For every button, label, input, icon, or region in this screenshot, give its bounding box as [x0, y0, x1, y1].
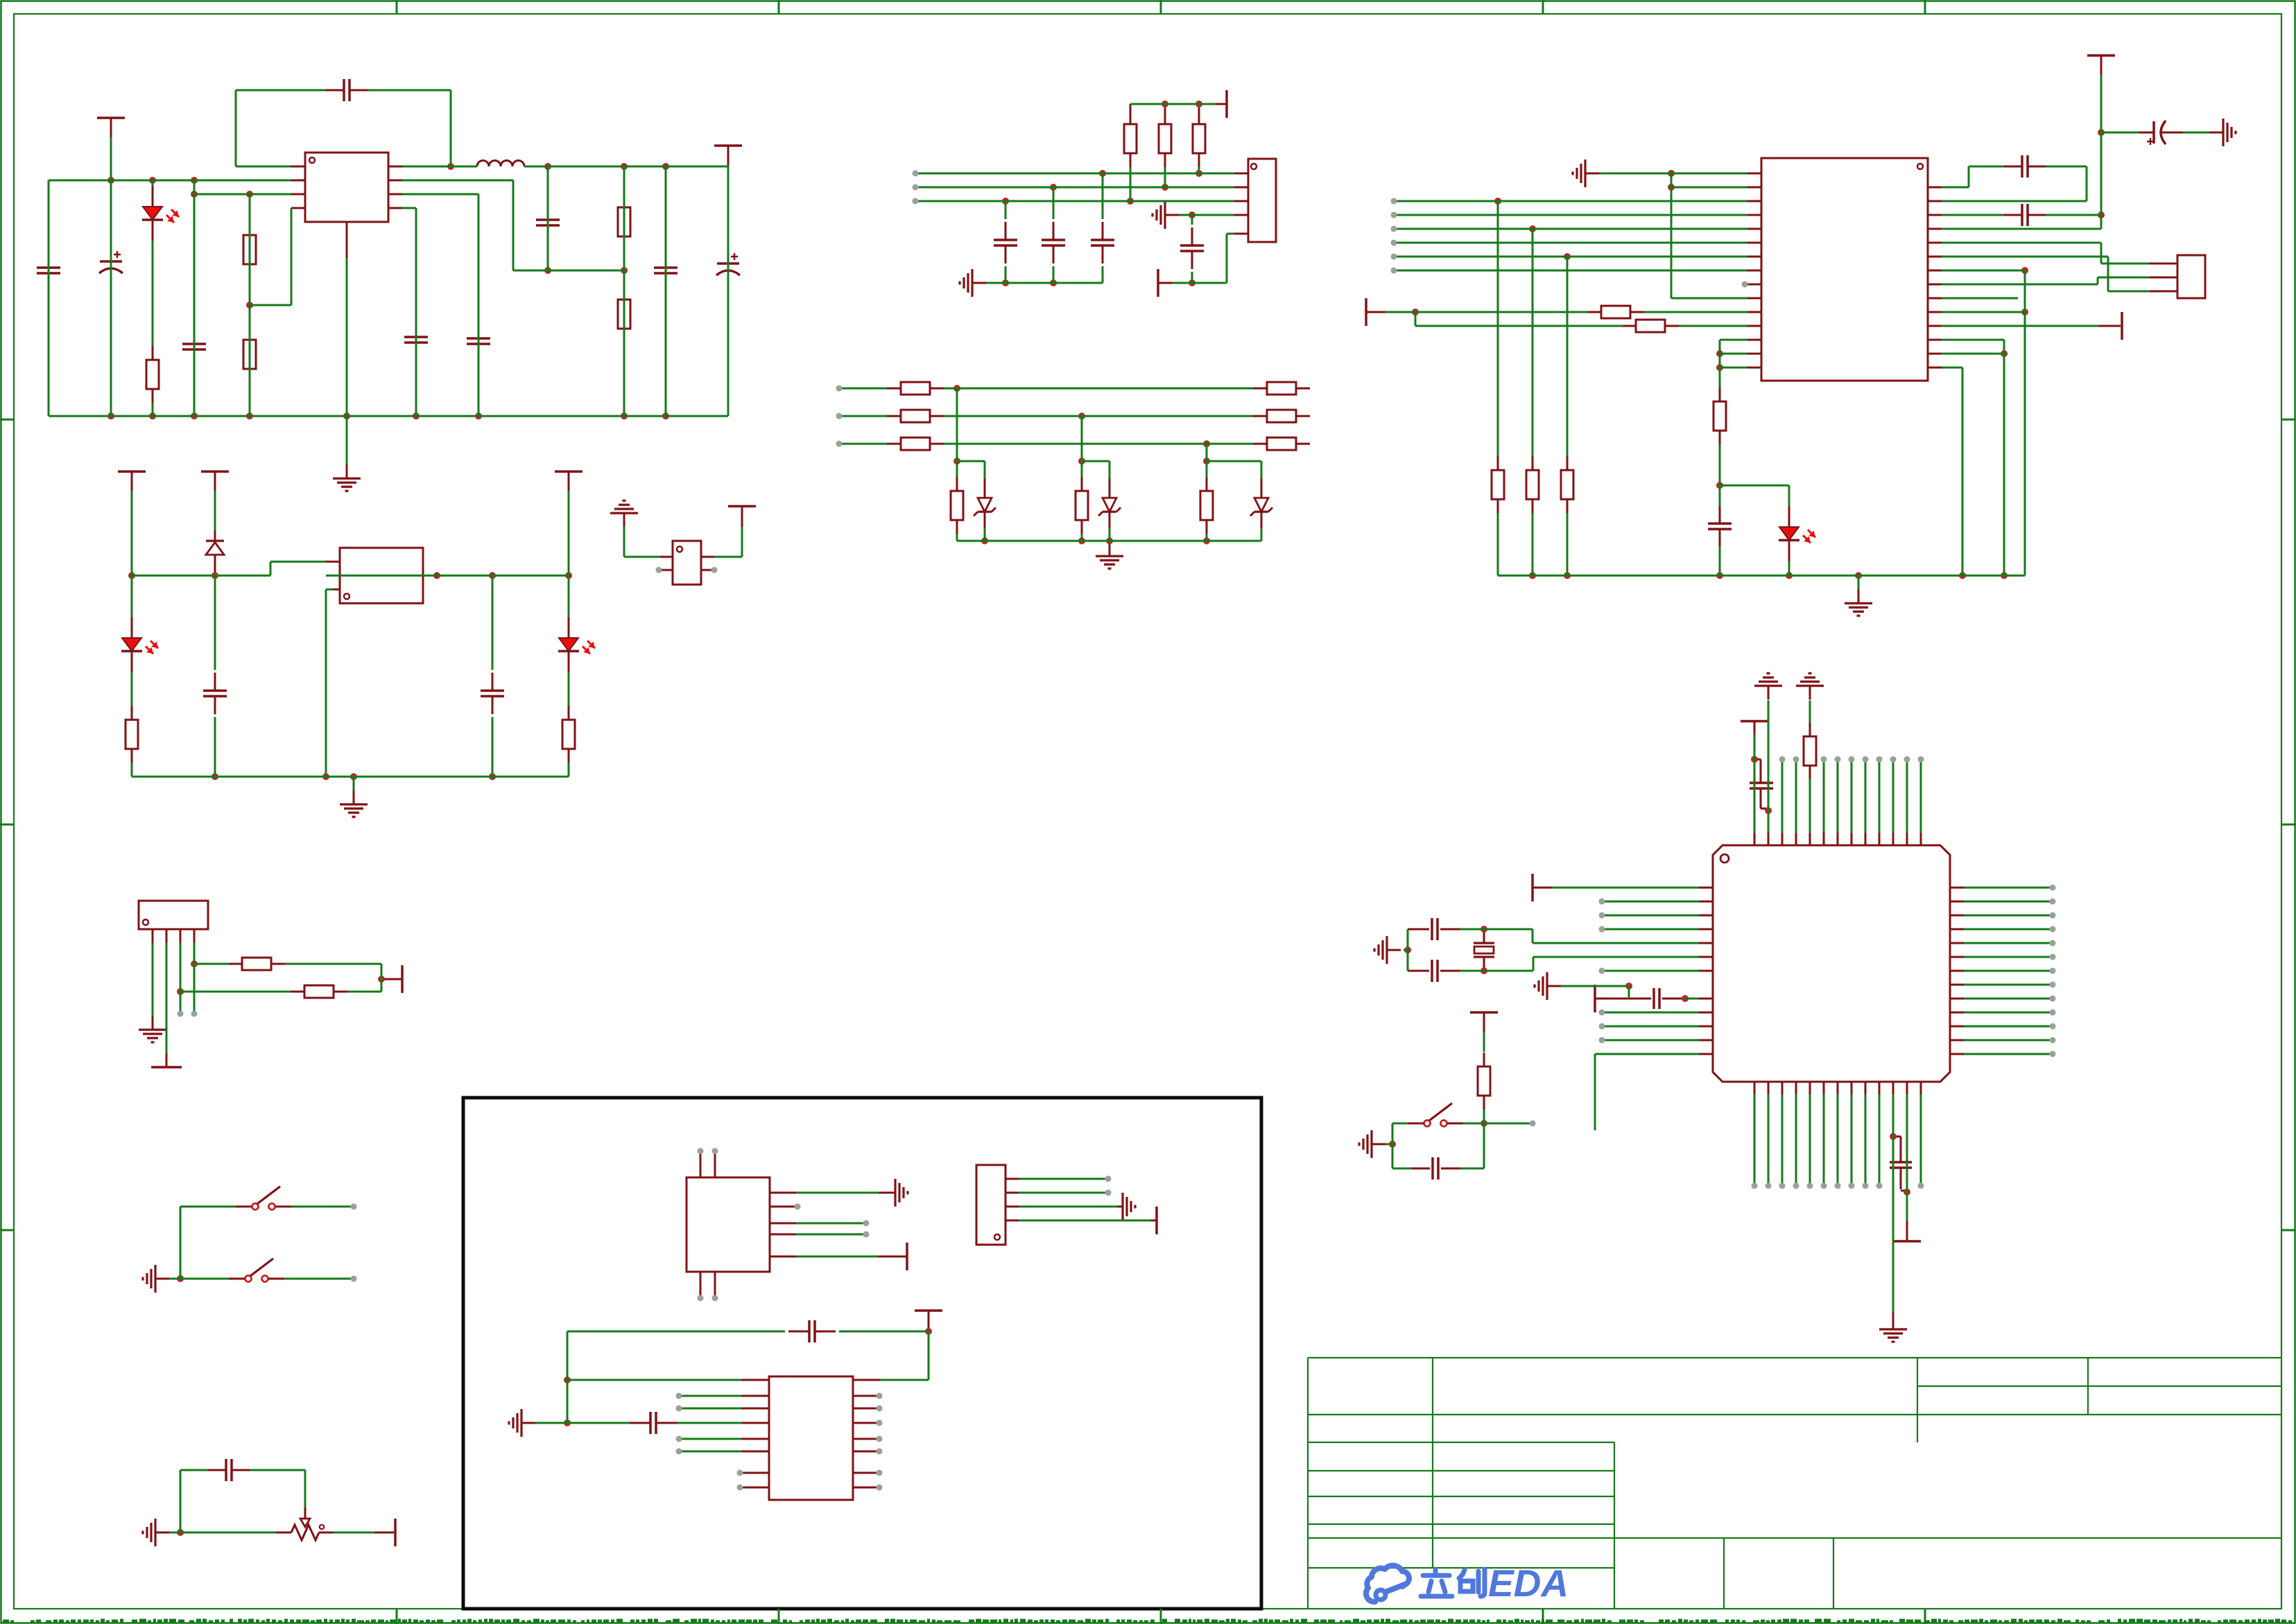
svg-text:EDA: EDA	[1488, 1562, 1569, 1605]
